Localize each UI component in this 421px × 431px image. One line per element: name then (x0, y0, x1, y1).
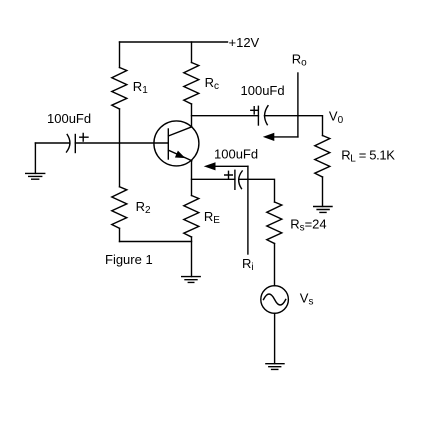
capacitor C3 plus sign (225, 171, 233, 179)
transistor Q1 emitter arrowhead (176, 152, 184, 158)
capacitor C2 100uFd straight plate (257, 106, 259, 125)
label Ri (242, 256, 254, 273)
resistor R1 (112, 68, 127, 110)
wire left branch top (119, 42, 121, 68)
svg-text:RE: RE (204, 209, 220, 226)
node Ri indicator vertical (247, 166, 249, 254)
svg-text:100uFd: 100uFd (241, 83, 285, 98)
wire input ground stem (34, 143, 36, 173)
svg-text:R2: R2 (136, 199, 151, 216)
ground RE (182, 277, 201, 283)
ground RL (314, 207, 332, 213)
label 100uFd input (47, 111, 91, 126)
wire base lead (75, 142, 168, 144)
label Rs=24 (290, 217, 326, 234)
wire RC top (191, 42, 193, 63)
resistor R2 (112, 187, 127, 229)
transistor Q1 collector diagonal (169, 127, 192, 136)
label 100uFd output (241, 83, 285, 98)
wire output to Vo corner (265, 116, 323, 136)
node Ri indicator arrow line (212, 165, 248, 167)
wire collector output rail (192, 115, 259, 117)
svg-text:+12V: +12V (229, 35, 260, 50)
capacitor C3 curved plate (239, 171, 243, 189)
wire emitter cap to Rs corner (240, 179, 275, 202)
resistor RE (184, 196, 199, 238)
capacitor C1 curved plate (67, 135, 70, 153)
wire R1 to base node (119, 109, 121, 187)
label +12V (229, 35, 260, 50)
wire input left segment (35, 142, 69, 144)
capacitor C3 100uFd straight plate (234, 170, 236, 189)
wire R2 bottom (119, 228, 121, 241)
label R2 (136, 199, 151, 216)
resistor RL (315, 136, 330, 178)
resistor RC (184, 63, 199, 105)
label Figure 1 (105, 252, 153, 267)
label 100uFd emitter (214, 147, 258, 162)
label Vs (300, 291, 314, 308)
svg-text:Vs: Vs (300, 291, 314, 308)
label RE (204, 209, 220, 226)
transistor Q1 emitter diagonal (169, 150, 192, 160)
wire emitter vertical (191, 161, 193, 196)
wire RL bottom (322, 177, 324, 206)
svg-text:Ri: Ri (242, 256, 254, 273)
node Ro indicator arrowhead (264, 134, 274, 141)
source Vs circle (261, 286, 289, 314)
svg-text:V0: V0 (329, 108, 344, 126)
svg-text:100uFd: 100uFd (214, 147, 258, 162)
transistor Q1 circle (154, 121, 199, 166)
node Ro indicator vertical (297, 73, 299, 137)
ground input (26, 173, 45, 179)
capacitor C2 plus sign (251, 107, 258, 114)
wire bottom rail (120, 241, 192, 243)
svg-text:Rs=24: Rs=24 (290, 217, 326, 234)
wire emitter branch (192, 178, 235, 180)
wire RE bottom to ground (191, 237, 193, 277)
svg-text:RL = 5.1K: RL = 5.1K (341, 147, 395, 164)
label RC (205, 75, 219, 92)
label Ro (292, 52, 307, 69)
label R1 (133, 79, 148, 96)
svg-text:Rc: Rc (205, 75, 219, 92)
source Vs sine wave (264, 294, 286, 305)
svg-text:100uFd: 100uFd (47, 111, 91, 126)
capacitor C1 plus sign (80, 133, 88, 141)
resistor RS (267, 202, 282, 244)
label Vo (329, 108, 344, 126)
svg-text:Figure 1: Figure 1 (105, 252, 153, 267)
capacitor C2 curved plate (265, 106, 268, 125)
svg-text:Ro: Ro (292, 52, 307, 69)
svg-text:R1: R1 (133, 79, 148, 96)
label RL = 5.1K (341, 147, 395, 164)
wire source to ground (274, 313, 276, 363)
wire RS to source (274, 244, 276, 286)
ground Vs (266, 364, 284, 370)
node Ro indicator arrow line (270, 136, 298, 138)
capacitor C1 100uFd straight plate (74, 135, 76, 153)
wire +12V top rail (120, 41, 228, 43)
node Ri indicator arrowhead (205, 163, 215, 170)
wire collector vertical (191, 104, 193, 127)
transistor Q1 base bar (167, 129, 169, 159)
